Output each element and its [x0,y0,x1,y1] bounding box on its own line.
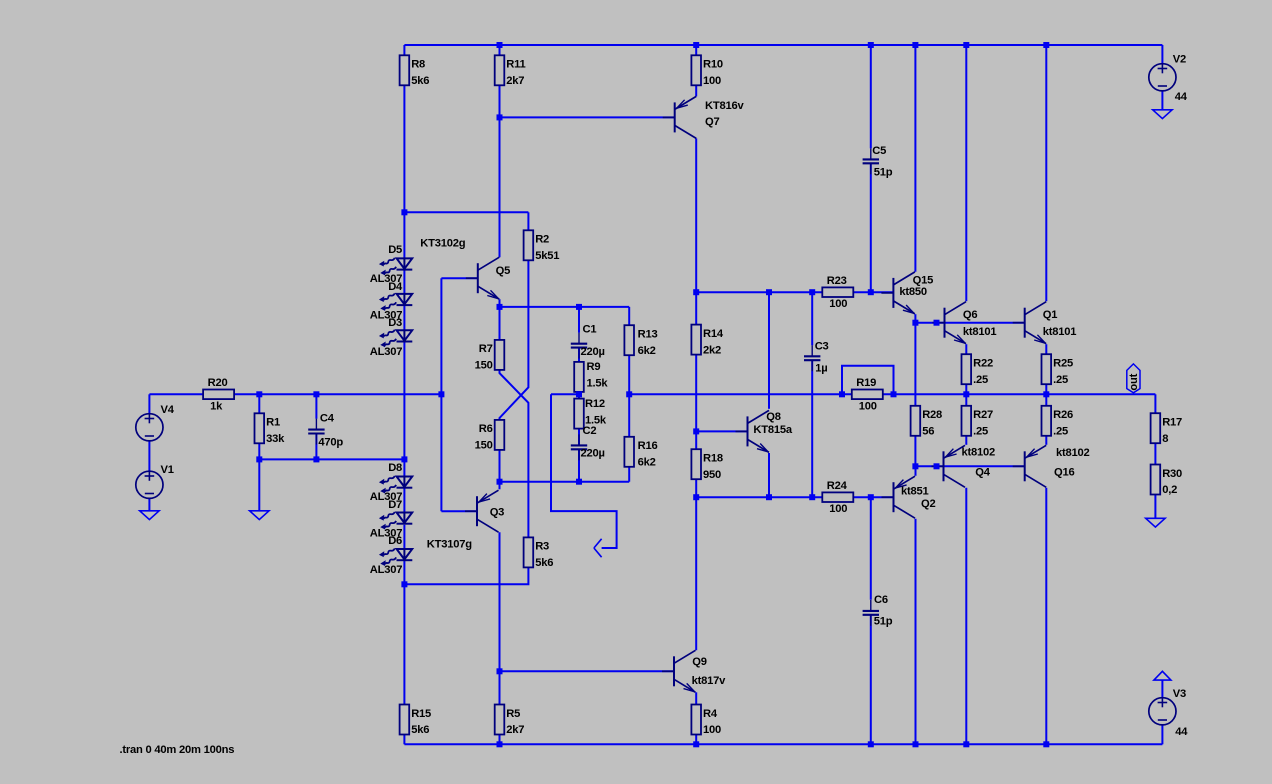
capacitor C6 [863,600,879,626]
resistor R5 [495,705,505,735]
svg-text:220µ: 220µ [581,448,605,460]
resistor R16 [624,437,634,467]
label R15 [411,708,431,720]
wire C6 top lead [870,497,872,600]
wire Q8 emitter down [768,453,770,497]
label Q16 [1054,467,1075,479]
label Q8 [766,411,780,423]
wire R13 top lead [628,307,630,325]
svg-text:KT815a: KT815a [753,424,792,436]
svg-text:R19: R19 [856,377,876,389]
voltage source V3 [1149,698,1176,725]
resistor R6 [495,420,505,450]
label KT3107g [427,539,472,551]
label R13 [638,329,658,341]
svg-text:Q3: Q3 [490,506,504,518]
wire feedback stub [551,393,579,395]
resistor R3 [524,537,534,567]
svg-text:C2: C2 [583,425,597,437]
junction [913,741,919,747]
svg-text:R3: R3 [535,541,549,553]
LED D8 [379,476,412,494]
svg-text:44: 44 [1175,726,1188,738]
svg-text:AL307: AL307 [370,564,402,576]
voltage source V2 [1149,64,1176,91]
wire R14 column [695,292,697,324]
value D6 [370,564,402,576]
svg-text:1µ: 1µ [815,362,827,374]
wire node to R15 [403,584,405,704]
svg-text:kt8101: kt8101 [1043,326,1077,338]
value R15 [411,724,429,736]
ground [140,511,159,520]
junction [497,479,503,485]
wire V4-V1 [148,441,150,471]
junction [912,463,918,469]
wire V1 to ground [148,498,150,510]
value R27 [973,426,988,438]
svg-text:Q4: Q4 [975,467,990,479]
wire out rail to R27 [965,394,967,406]
wire Q5-Q3 base column [440,278,442,511]
svg-text:V2: V2 [1173,54,1186,66]
label R28 [922,409,942,421]
svg-text:2k7: 2k7 [506,75,524,87]
junction [256,391,262,397]
wire R10 top lead [695,45,697,55]
wire R10 to Q7 emitter [695,85,697,96]
label D4 [388,281,403,293]
wire V3 top lead [1161,680,1163,698]
value C6 [874,616,893,628]
svg-text:D4: D4 [388,281,403,293]
resistor R20 [203,390,234,400]
value R24 [829,503,847,515]
value R6 [475,440,493,452]
label R7 [479,343,493,355]
svg-text:R4: R4 [703,708,718,720]
resistor R23 [822,287,853,297]
value D4 [370,310,402,322]
svg-text:33k: 33k [266,433,285,445]
label KT3102g [420,238,465,250]
svg-text:AL307: AL307 [370,346,402,358]
junction [693,428,699,434]
label C5 [872,145,886,157]
svg-text:220µ: 220µ [581,346,605,358]
value R2 [535,250,559,262]
svg-text:R18: R18 [703,453,723,465]
resistor R2 [524,230,534,260]
label D7 [388,499,402,511]
label R17 [1162,417,1182,429]
value R8 [411,75,429,87]
svg-text:C6: C6 [874,594,888,606]
ground [1154,671,1171,680]
resistor R27 [962,406,972,436]
junction [497,304,503,310]
transistor Q2 [882,476,916,518]
label R10 [703,59,723,71]
svg-text:150: 150 [475,440,493,452]
svg-text:6k2: 6k2 [638,345,656,357]
svg-text:R16: R16 [638,440,658,452]
wire Q9 emitter to R4 [695,692,697,704]
value R9 [587,377,609,389]
wire node to R3 bottom [404,567,528,585]
resistor R11 [495,55,505,85]
svg-text:R13: R13 [638,329,658,341]
svg-text:R26: R26 [1053,409,1073,421]
wire C1 top lead [578,307,580,333]
resistor R30 [1151,465,1161,495]
svg-text:56: 56 [922,426,934,438]
capacitor C1 [571,333,587,359]
junction [401,581,407,587]
wire upper base bus [915,322,1024,324]
label Q2 [921,498,935,510]
value R28 [922,426,934,438]
resistor R18 [691,449,701,479]
value R11 [506,75,524,87]
label R27 [973,409,993,421]
wire Q16 collector down [1045,488,1047,745]
svg-text:kt850: kt850 [899,286,927,298]
wire Q7 base [500,116,675,118]
transistor Q7 [663,96,697,138]
value D8 [370,491,402,503]
svg-text:D3: D3 [388,317,402,329]
svg-text:6k2: 6k2 [638,457,656,469]
label kt8102 Q16 [1056,447,1090,459]
wire feedback bus [500,481,630,483]
wire Q15 collector up [914,45,916,272]
junction [963,741,969,747]
wire Q9 base [500,670,675,672]
wire D5-D4 [403,269,405,294]
junction [891,391,897,397]
LED D4 [379,293,412,311]
label kt817v [692,675,727,687]
label Q5 [496,265,510,277]
svg-text:D5: D5 [388,244,402,256]
svg-text:C1: C1 [583,323,597,335]
value R26 [1053,426,1068,438]
transistor Q9 [662,650,696,692]
wire R25 to out rail [1045,383,1047,394]
label R3 [535,541,549,553]
label R25 [1053,358,1073,370]
junction [839,391,845,397]
transistor Q5 [466,257,500,299]
junction [401,209,407,215]
transistor Q8 [736,410,770,452]
wire R12-C2 [578,426,580,445]
svg-text:2k2: 2k2 [703,344,721,356]
resistor R9 [574,362,584,392]
value R12 [585,415,607,427]
svg-text:R5: R5 [506,708,520,720]
resistor R4 [691,705,701,735]
transistor Q15 [881,272,915,314]
wire C3 bottom lead [811,360,813,497]
value R14 [703,344,721,356]
capacitor C2 [571,434,587,460]
value R3 [535,557,553,569]
value R1 [266,433,285,445]
voltage source V1 [136,471,163,498]
wire Q6 collector up [965,45,967,301]
svg-text:out: out [1128,373,1140,390]
svg-text:Q5: Q5 [496,265,510,277]
svg-text:R2: R2 [535,234,549,246]
svg-text:100: 100 [829,503,847,515]
svg-text:V3: V3 [1173,688,1186,700]
resistor R19 [852,390,883,400]
junction [497,114,503,120]
wire D4-D3 [403,305,405,330]
wire R8 top lead [403,45,405,55]
wire V3 bottom lead [1161,725,1163,744]
svg-text:R17: R17 [1162,417,1182,429]
label R20 [208,377,228,389]
junction [963,42,969,48]
value V3 [1175,726,1188,738]
wire Q1 emitter to R25 [1045,344,1047,354]
wire R9-R12 node [578,389,580,399]
label C1 [583,323,597,335]
svg-text:kt8102: kt8102 [1056,447,1090,459]
label R26 [1053,409,1073,421]
wire R1 node to ground [258,459,260,510]
svg-text:R1: R1 [266,417,280,429]
label kt850 [899,286,927,298]
transistor Q1 [1013,302,1046,344]
junction [693,494,699,500]
value C2 [581,448,605,460]
ground [1146,518,1165,527]
svg-text:R30: R30 [1162,468,1182,480]
value R20 [210,400,223,412]
svg-text:R24: R24 [827,480,848,492]
label R23 [827,275,847,287]
junction [934,463,940,469]
junction [912,42,918,48]
wire Q7 collector down [695,138,697,292]
wire Q3 collector lead [499,532,501,671]
wire R17-R30 [1154,443,1156,464]
svg-text:KT3107g: KT3107g [427,539,472,551]
label R9 [587,361,601,373]
value R5 [506,724,524,736]
wire D8-D7 [403,488,405,513]
junction [766,494,772,500]
value R19 [859,400,877,412]
svg-text:100: 100 [703,724,721,736]
svg-text:KT3102g: KT3102g [420,238,465,250]
junction [868,42,874,48]
svg-text:R8: R8 [411,59,425,71]
junction [497,741,503,747]
svg-text:100: 100 [829,298,847,310]
svg-text:kt817v: kt817v [692,675,727,687]
label C2 [583,425,597,437]
svg-text:.tran 0 40m 20m 100ns: .tran 0 40m 20m 100ns [120,744,235,756]
wire R30 to ground [1154,494,1156,519]
wire R2 cross to R6 [500,230,529,420]
junction [934,320,940,326]
wire R14 to Q8 base node [695,355,697,450]
svg-text:V4: V4 [161,404,175,416]
wire C1-R9 [578,348,580,362]
junction [693,42,699,48]
label R4 [703,708,718,720]
wire C2 bottom lead [578,449,580,481]
resistor R12 [574,399,584,429]
wire out rail to R26 [1045,394,1047,406]
label Q7 [705,116,719,128]
junction [1043,391,1049,397]
wire Q3 col to R5 [499,671,501,704]
junction [693,289,699,295]
value R7 [475,360,493,372]
resistor R15 [400,705,410,735]
label R1 [266,417,280,429]
svg-text:100: 100 [703,75,721,87]
wire R2 top lead [527,212,529,230]
wire C3 top lead [811,292,813,345]
svg-text:5k51: 5k51 [535,250,559,262]
wire R8 to node [403,85,405,212]
svg-text:R20: R20 [208,377,228,389]
wire R28 bottom lead [914,436,916,467]
wire Q15 emitter lead [914,314,916,323]
wire R18 bottom lead [695,478,697,497]
label D8 [388,462,402,474]
junction [693,741,699,747]
svg-text:V1: V1 [161,464,174,476]
transistor Q16 [1013,445,1046,487]
wire D6 to node [403,560,405,584]
svg-text:Q8: Q8 [766,411,780,423]
wire Q1 collector up [1045,45,1047,301]
svg-text:R28: R28 [922,409,942,421]
junction [438,391,444,397]
wire Q6 emitter to R22 [965,344,967,354]
wire R13 to out rail [628,355,630,394]
resistor R13 [624,325,634,355]
wire R4 bottom lead [695,733,697,744]
wire Q5 base [441,277,477,279]
svg-text:.25: .25 [973,374,988,386]
junction [626,391,632,397]
label kt851 [901,486,929,498]
wire Q2 emitter lead [915,466,917,476]
svg-text:R11: R11 [506,59,525,71]
wire to Q9 collector [695,497,697,650]
resistor R14 [691,325,701,355]
label Q9 [692,656,706,668]
wire Q4 collector down [965,488,967,745]
svg-text:R12: R12 [585,398,605,410]
svg-text:950: 950 [703,469,721,481]
label R16 [638,440,658,452]
junction [576,391,582,397]
value R25 [1053,374,1068,386]
wire node to Q5 collector [499,117,501,257]
value C1 [581,346,605,358]
wire V2 to ground [1161,91,1163,110]
junction [497,668,503,674]
wire V4 to R20 [149,393,203,395]
label KT816v [705,100,744,112]
junction [963,391,969,397]
svg-text:5k6: 5k6 [411,724,429,736]
svg-text:470p: 470p [318,437,343,449]
wire Q8 base [696,430,747,432]
label R30 [1162,468,1182,480]
label R5 [506,708,520,720]
svg-text:5k6: 5k6 [535,557,553,569]
label Q6 [963,309,977,321]
wire node to R2 branch [404,211,528,213]
ground [1153,110,1172,119]
transistor Q4 [932,445,966,487]
resistor R25 [1042,354,1052,384]
svg-text:R6: R6 [479,423,493,435]
wire ground bus [259,458,404,460]
label C4 [320,413,335,425]
value C4 [318,437,343,449]
label kt8102 Q4 [962,447,996,459]
svg-text:KT816v: KT816v [705,100,744,112]
label Q3 [490,506,504,518]
svg-text:.25: .25 [973,426,988,438]
svg-text:C4: C4 [320,413,335,425]
label V1 [161,464,174,476]
wire R15 bottom lead [403,733,405,744]
svg-text:R27: R27 [973,409,993,421]
svg-text:Q6: Q6 [963,309,977,321]
wire C5 bottom lead [870,163,872,292]
svg-text:R14: R14 [703,328,724,340]
svg-text:kt8102: kt8102 [962,447,996,459]
junction [1043,741,1049,747]
wire V2 top lead [1161,45,1163,64]
svg-text:150: 150 [475,360,493,372]
label Q15 [913,275,934,287]
wire Q3 emitter lead [499,449,501,489]
label D5 [388,244,402,256]
label V2 [1173,54,1186,66]
LED D6 [379,549,412,567]
label C3 [815,341,829,353]
value R4 [703,724,721,736]
value R18 [703,469,721,481]
wire Q15e to R28 [914,323,916,406]
wire R16 bottom lead [628,466,630,482]
label R6 [479,423,493,435]
annotation arrow head [594,539,602,557]
svg-text:R23: R23 [827,275,847,287]
junction [401,456,407,462]
wire R1 bottom lead [258,444,260,460]
wire R26 to Q16 emitter [1045,436,1047,445]
junction [576,479,582,485]
resistor R1 [255,413,265,443]
value R23 [829,298,847,310]
svg-text:.25: .25 [1053,374,1068,386]
